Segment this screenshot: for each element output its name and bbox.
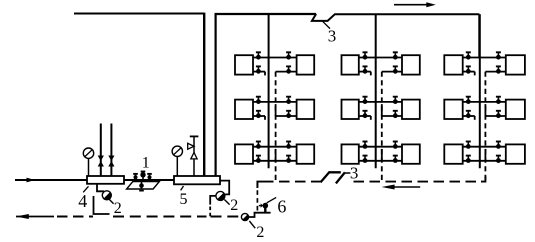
svg-text:1: 1 (142, 155, 150, 172)
svg-text:4: 4 (78, 191, 87, 211)
svg-text:3: 3 (328, 26, 337, 45)
svg-text:2: 2 (230, 197, 238, 214)
svg-text:6: 6 (277, 197, 286, 217)
svg-text:2: 2 (114, 200, 122, 217)
svg-text:3: 3 (350, 164, 359, 183)
svg-text:2: 2 (256, 224, 264, 241)
svg-text:5: 5 (180, 191, 188, 208)
